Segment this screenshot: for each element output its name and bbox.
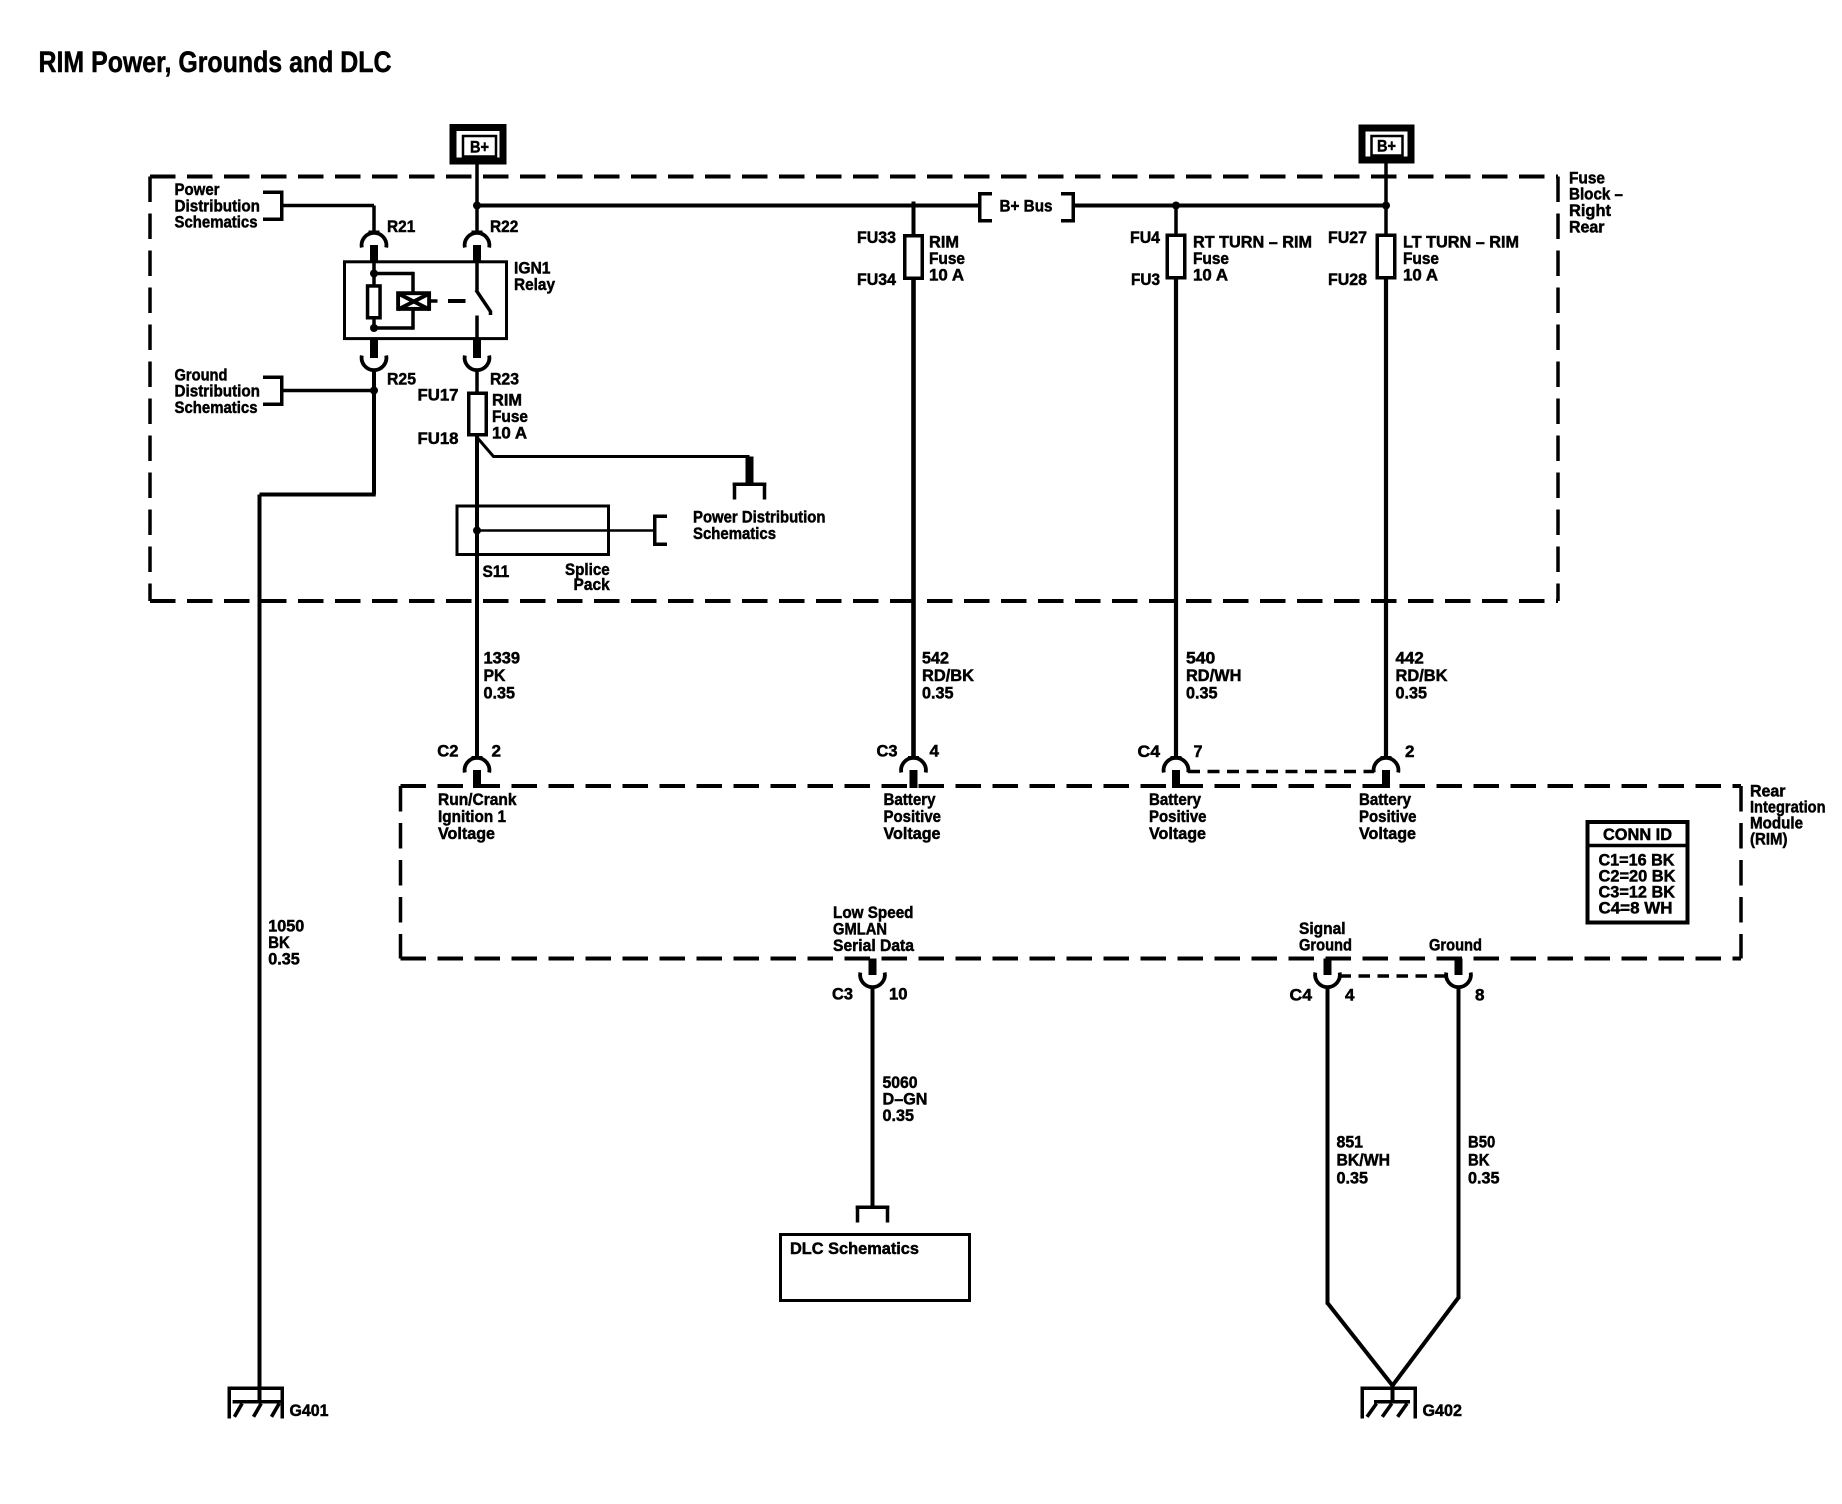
fuse FU33/FU34 RIM 10A — [905, 236, 923, 279]
wire 851 diagonal to G402 — [1328, 1303, 1393, 1386]
svg-text:10 A: 10 A — [929, 266, 964, 285]
B+ Bus label right bracket — [1061, 192, 1075, 223]
junction S11 — [473, 527, 481, 535]
wire B50 diagonal to G402 — [1393, 1298, 1459, 1386]
svg-text:FU17: FU17 — [418, 386, 459, 405]
svg-text:0.35: 0.35 — [922, 683, 954, 702]
power flag B+ (right) — [1362, 128, 1411, 160]
label FU28 — [1328, 270, 1367, 289]
label signal ground — [1299, 919, 1352, 955]
svg-text:0.35: 0.35 — [1468, 1169, 1500, 1188]
junction relay coil top — [370, 270, 378, 278]
svg-text:Voltage: Voltage — [884, 824, 941, 843]
svg-text:B+: B+ — [470, 138, 489, 157]
wire label 851 BK/WH 0.35 — [1337, 1133, 1391, 1188]
svg-text:Relay: Relay — [514, 275, 555, 294]
svg-text:S11: S11 — [483, 562, 510, 581]
label ground distribution schematics — [175, 365, 261, 417]
svg-text:R25: R25 — [387, 370, 416, 389]
svg-text:540: 540 — [1186, 649, 1215, 668]
wire label 1050 BK 0.35 — [268, 917, 304, 969]
fuse FU4/FU3 RT TURN 10A — [1167, 235, 1185, 278]
wire R23 to fuse — [475, 369, 479, 392]
relay actuator dashed link — [448, 299, 466, 303]
svg-text:RD/WH: RD/WH — [1186, 666, 1241, 685]
svg-text:Schematics: Schematics — [175, 398, 258, 417]
wire jog left — [260, 493, 376, 497]
bracket power distribution (down) — [733, 483, 767, 500]
label FU33 — [857, 228, 896, 247]
label FU18 — [418, 429, 459, 448]
wire resistor bottom — [372, 318, 376, 331]
wire 540 RD/WH down to C4-7 — [1174, 280, 1178, 758]
svg-text:C3: C3 — [877, 742, 898, 761]
fuse FU27/FU28 LT TURN 10A — [1377, 235, 1395, 278]
connector C4 pin 2 — [1374, 756, 1399, 788]
wire branch to power distribution — [478, 439, 750, 457]
wire coil bottom rise — [411, 310, 415, 330]
relay coil (box with X) — [398, 293, 430, 309]
svg-text:4: 4 — [930, 742, 940, 761]
label fuse block - right rear — [1569, 168, 1623, 236]
wire coil to link — [431, 299, 438, 303]
fuse block - right rear dashed box — [150, 177, 1558, 602]
CONN ID table — [1586, 822, 1689, 923]
svg-text:2: 2 — [492, 742, 502, 761]
svg-text:CONN ID: CONN ID — [1603, 825, 1672, 844]
label LT TURN - RIM Fuse 10 A — [1403, 233, 1519, 285]
wire label 1339 PK 0.35 — [484, 649, 521, 703]
svg-text:0.35: 0.35 — [883, 1106, 915, 1125]
label battery positive voltage (C3) — [884, 790, 942, 843]
wire 5060 D-GN to DLC — [871, 986, 875, 1206]
svg-text:Ground: Ground — [1299, 936, 1352, 955]
svg-text:2: 2 — [1405, 742, 1415, 761]
wire FU33 tap — [912, 202, 916, 235]
svg-text:8: 8 — [1475, 986, 1485, 1005]
splice pack S11 box — [457, 506, 609, 555]
svg-text:FU33: FU33 — [857, 228, 896, 247]
svg-text:C3: C3 — [832, 985, 853, 1004]
label rear integration module (RIM) — [1750, 782, 1826, 849]
wire to R21 — [372, 206, 376, 233]
wire label 5060 D-GN 0.35 — [883, 1073, 928, 1125]
svg-text:BK: BK — [1468, 1151, 1490, 1170]
ground G402 — [1361, 1387, 1418, 1419]
wire S11 to bracket — [477, 529, 655, 532]
svg-text:Rear: Rear — [1569, 217, 1605, 236]
wire label 442 RD/BK 0.35 — [1396, 649, 1449, 703]
wire B+ left drop — [475, 162, 479, 233]
label low speed GMLAN serial data — [833, 903, 914, 955]
resistor (relay) — [368, 286, 381, 318]
connector C4 pin 8 — [1446, 959, 1471, 988]
junction B+ left — [473, 202, 481, 210]
svg-text:FU18: FU18 — [418, 429, 459, 448]
svg-text:1339: 1339 — [484, 649, 521, 668]
svg-text:RIM Power, Grounds and DLC: RIM Power, Grounds and DLC — [39, 46, 392, 79]
label FU3 — [1131, 270, 1160, 289]
wire power distribution feed — [284, 204, 375, 208]
power flag B+ (left) — [453, 128, 503, 162]
label FU4 — [1130, 228, 1161, 247]
label C3 — [877, 742, 898, 761]
junction relay coil bottom — [370, 324, 378, 332]
svg-text:C2: C2 — [437, 742, 458, 761]
connector R23 — [465, 340, 490, 371]
svg-text:FU28: FU28 — [1328, 270, 1367, 289]
svg-text:DLC Schematics: DLC Schematics — [790, 1239, 919, 1258]
svg-text:C4=8 WH: C4=8 WH — [1599, 899, 1673, 918]
svg-text:Voltage: Voltage — [1149, 824, 1206, 843]
svg-text:Schematics: Schematics — [693, 524, 776, 543]
label run/crank ignition 1 voltage — [438, 790, 517, 843]
svg-text:Schematics: Schematics — [175, 213, 258, 232]
svg-text:Voltage: Voltage — [1359, 824, 1416, 843]
connector C3 pin 4 — [901, 756, 926, 788]
svg-text:10 A: 10 A — [1403, 266, 1438, 285]
svg-text:C4: C4 — [1290, 986, 1313, 1005]
svg-text:10 A: 10 A — [1193, 266, 1228, 285]
relay switch blade — [476, 290, 491, 315]
connector R21 — [362, 231, 387, 263]
connector C4 pin 7 — [1164, 756, 1189, 788]
svg-text:BK/WH: BK/WH — [1337, 1151, 1391, 1170]
svg-text:851: 851 — [1337, 1133, 1364, 1152]
svg-text:RD/BK: RD/BK — [1396, 666, 1449, 685]
wire B50 BK vertical — [1457, 986, 1461, 1300]
dashed link C4 pins 7-2 — [1188, 770, 1374, 774]
junction B+ right — [1382, 202, 1390, 210]
label C4 — [1138, 742, 1161, 761]
svg-text:FU4: FU4 — [1130, 228, 1161, 247]
label FU34 — [857, 270, 897, 289]
wire label 542 RD/BK 0.35 — [922, 649, 975, 703]
svg-text:G402: G402 — [1423, 1401, 1463, 1420]
svg-text:7: 7 — [1194, 742, 1203, 761]
connector R22 — [465, 231, 490, 263]
wire coil bottom link — [374, 326, 413, 330]
svg-text:PK: PK — [484, 666, 507, 685]
wire 442 RD/BK down to pin 2 — [1384, 280, 1388, 758]
svg-text:R21: R21 — [387, 217, 415, 236]
svg-text:542: 542 — [922, 649, 949, 668]
connector C3 pin 10 — [860, 959, 885, 988]
wire 851 BK/WH vertical — [1326, 986, 1330, 1305]
stub to power distribution — [746, 457, 754, 484]
label RIM Fuse 10 A (FU33) — [929, 233, 965, 285]
wire B+ bus right segment — [1075, 204, 1386, 208]
wire FU4 tap down — [1174, 206, 1178, 234]
label power distribution schematics (middle) — [693, 508, 826, 544]
svg-text:0.35: 0.35 — [1337, 1169, 1369, 1188]
svg-text:Pack: Pack — [574, 575, 611, 594]
svg-text:10: 10 — [889, 985, 908, 1004]
wire 542 RD/BK down to C3 — [911, 280, 916, 757]
wire B+ right drop — [1384, 161, 1388, 234]
svg-text:10 A: 10 A — [492, 424, 527, 443]
svg-text:FU27: FU27 — [1328, 228, 1367, 247]
wire coil top drop — [411, 272, 415, 293]
bracket S11 to power distribution — [653, 515, 667, 547]
B+ Bus label left bracket — [978, 192, 992, 223]
label C2 — [437, 742, 458, 761]
svg-text:4: 4 — [1345, 986, 1355, 1005]
svg-text:R22: R22 — [490, 217, 518, 236]
svg-text:C4: C4 — [1138, 742, 1161, 761]
label power distribution schematics (top left) — [175, 180, 261, 232]
wire G402 stem — [1391, 1385, 1395, 1402]
wire switch upper lead — [475, 261, 479, 291]
svg-text:B+ Bus: B+ Bus — [1000, 197, 1053, 216]
label C4 (bottom) — [1290, 986, 1313, 1005]
connector R25 — [362, 340, 387, 371]
label battery positive voltage (C4 pin7) — [1149, 790, 1207, 843]
svg-text:0.35: 0.35 — [1396, 683, 1428, 702]
svg-text:FU34: FU34 — [857, 270, 897, 289]
dashed link C4 pins 4-8 — [1340, 974, 1447, 978]
svg-text:Ground: Ground — [1429, 936, 1482, 955]
svg-text:0.35: 0.35 — [268, 950, 300, 969]
label RT TURN - RIM Fuse 10 A — [1193, 233, 1312, 285]
label FU27 — [1328, 228, 1367, 247]
junction ground wire — [370, 387, 378, 395]
wire 1050 BK to G401 — [258, 495, 262, 1402]
wire label 540 RD/WH 0.35 — [1186, 649, 1241, 703]
svg-text:FU3: FU3 — [1131, 270, 1160, 289]
ground G401 — [228, 1387, 285, 1419]
svg-text:0.35: 0.35 — [484, 683, 516, 702]
label IGN1 Relay — [514, 259, 555, 295]
svg-text:0.35: 0.35 — [1186, 683, 1218, 702]
connector C2 pin 2 — [465, 756, 490, 788]
junction FU4 tap — [1172, 202, 1180, 210]
bracket ground distribution schematics — [263, 376, 284, 407]
relay IGN1 box — [345, 262, 507, 339]
svg-text:R23: R23 — [490, 370, 519, 389]
label RIM Fuse 10 A (FU17) — [492, 391, 528, 443]
wire 1339 PK down to C2 — [475, 437, 479, 758]
svg-text:B+: B+ — [1377, 137, 1396, 156]
bracket power distribution schematics — [263, 191, 284, 222]
svg-text:442: 442 — [1396, 649, 1424, 668]
wire B+ bus left segment — [477, 204, 978, 208]
svg-text:Serial Data: Serial Data — [833, 936, 914, 955]
rear integration module dashed box — [401, 786, 1742, 959]
svg-text:Voltage: Voltage — [438, 824, 495, 843]
connector C4 pin 4 — [1315, 959, 1340, 988]
wire ground distribution feed — [284, 389, 375, 393]
DLC Schematics box — [781, 1235, 970, 1301]
label FU17 — [418, 386, 459, 405]
label Splice Pack — [565, 560, 610, 594]
wire coil top link — [374, 272, 413, 276]
wire switch lower lead — [475, 316, 479, 340]
label C3 (pin10) — [832, 985, 853, 1004]
fuse FU17/FU18 RIM 10A — [469, 393, 487, 435]
svg-text:(RIM): (RIM) — [1750, 830, 1788, 849]
relay coil branch wire — [372, 261, 376, 286]
wire R25 down — [372, 369, 376, 495]
svg-text:B50: B50 — [1468, 1133, 1495, 1152]
svg-text:G401: G401 — [290, 1401, 329, 1420]
label battery positive voltage (C4 pin2) — [1359, 790, 1417, 843]
bracket to DLC schematics — [856, 1206, 890, 1223]
wire label B50 BK 0.35 — [1468, 1133, 1500, 1188]
svg-text:RD/BK: RD/BK — [922, 666, 975, 685]
